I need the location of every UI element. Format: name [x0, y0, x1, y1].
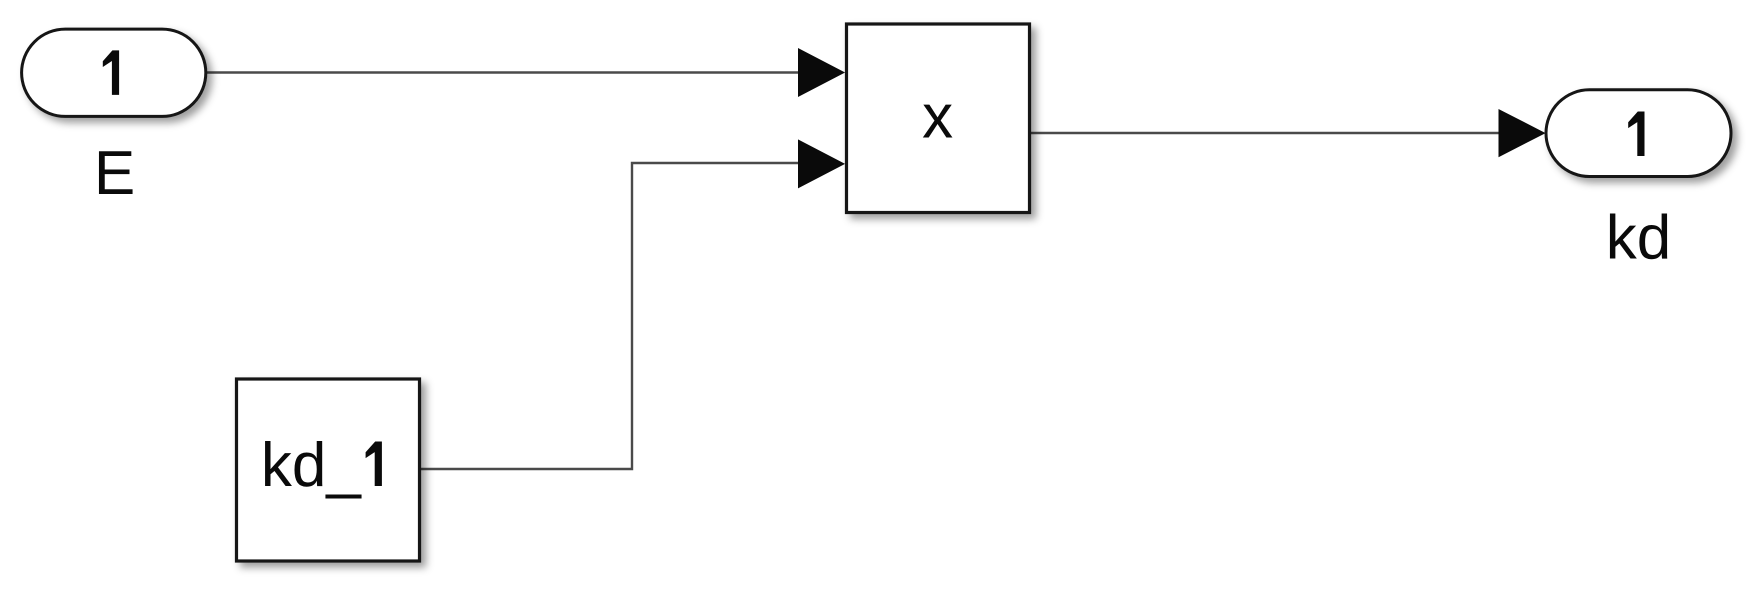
arrowhead into product input 2	[799, 140, 845, 187]
wire: constant kd_1 to product input 2	[420, 163, 800, 469]
outport block 1 (kd)	[1546, 90, 1731, 177]
arrowhead into outport kd	[1499, 110, 1545, 157]
wire: product output to outport kd	[1030, 132, 1500, 134]
product block U1 (x)	[847, 24, 1030, 213]
svg-text:E: E	[94, 139, 135, 208]
svg-text:kd: kd	[1606, 204, 1671, 273]
outport 1 value text	[1628, 112, 1644, 157]
inport 1 value text	[103, 50, 119, 95]
arrowhead into product input 1	[799, 49, 845, 96]
svg-text:x: x	[922, 83, 953, 152]
constant value text kd_1	[261, 431, 382, 500]
wire: inport E to product input 1	[206, 71, 800, 73]
inport block 1 (E)	[22, 29, 206, 116]
svg-text:kd_: kd_	[261, 431, 362, 500]
constant block kd_1	[237, 379, 420, 561]
